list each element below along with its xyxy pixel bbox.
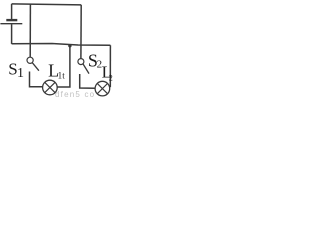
wire battery bottom lead: [11, 24, 13, 44]
svg-text:dfen5 co: dfen5 co: [55, 90, 95, 98]
switch S1 contact circle: [27, 57, 33, 63]
label S2: [88, 51, 102, 71]
lamp L1 circle: [43, 80, 58, 95]
lamp L1 cross: [45, 82, 55, 92]
label L2: [102, 62, 113, 82]
lamp L2 cross: [97, 84, 107, 94]
label S1: [8, 59, 24, 81]
wire battery top lead: [11, 4, 13, 19]
svg-text:2: 2: [109, 73, 113, 82]
wire right edge vertical to lamp L2: [109, 45, 111, 87]
label L1: [48, 61, 62, 81]
wire middle horizontal bus: [12, 44, 111, 46]
lamp L2 circle: [95, 81, 110, 96]
wire S1 lower lead to lamp L1: [30, 72, 43, 87]
battery B1 positive plate (long thin): [0, 23, 22, 25]
svg-text:1: 1: [17, 66, 24, 81]
switch S2 blade (open): [83, 64, 89, 74]
svg-text:t: t: [62, 71, 65, 81]
wire top bus: [12, 4, 82, 5]
battery B1 negative plate (short thick): [6, 19, 17, 21]
junction node dot: [68, 44, 71, 47]
switch S1 blade (open): [32, 63, 39, 71]
wire lamp L1 right to node: [57, 45, 70, 87]
switch S2 contact circle: [78, 59, 84, 65]
wire S2 lower lead to lamp L2: [80, 74, 95, 88]
wire S1 branch vertical from top: [29, 4, 31, 57]
wire S2 branch vertical from top-right corner: [80, 5, 82, 59]
